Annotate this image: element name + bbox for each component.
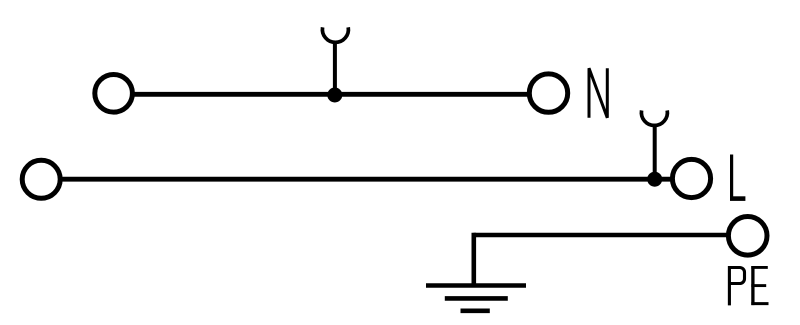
- junction dot N: [327, 88, 342, 103]
- terminal circle N: [529, 74, 567, 112]
- test tap fork N (stem): [333, 41, 337, 96]
- terminal circle L: [672, 159, 710, 197]
- label PE: [728, 266, 769, 305]
- terminal circle PE: [728, 217, 767, 256]
- test tap fork L (arc): [641, 110, 667, 125]
- terminal circle L row left: [22, 160, 60, 198]
- wire PE vertical: [471, 233, 476, 286]
- label N: [589, 68, 607, 118]
- ground symbol: [426, 286, 526, 311]
- terminal circle N row left: [95, 75, 133, 113]
- test tap fork N (arc): [322, 27, 348, 42]
- label L: [730, 155, 745, 199]
- wire L row: [62, 177, 672, 182]
- wire N row: [134, 92, 529, 97]
- test tap fork L (stem): [653, 124, 657, 180]
- wire PE horizontal: [474, 233, 728, 238]
- junction dot L: [647, 172, 662, 187]
